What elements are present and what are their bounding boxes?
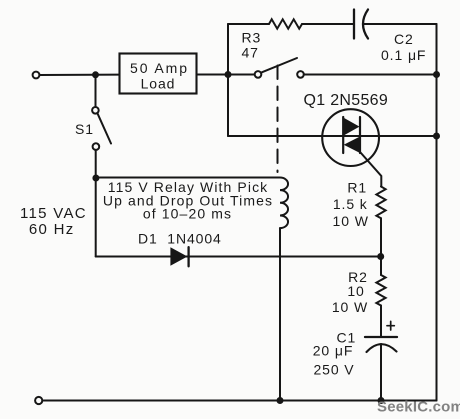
resistor R3 [269, 19, 302, 28]
wire switch row right [304, 74, 437, 76]
S1 contact bottom [93, 143, 100, 150]
node junction R1-R2 [377, 253, 384, 260]
wire node to R2 [380, 257, 382, 276]
plus sign [387, 325, 394, 327]
node junction right rail switch [433, 71, 440, 78]
terminal top-left [33, 72, 40, 79]
svg-text:1.5 k: 1.5 k [333, 196, 368, 212]
node junction top-left [92, 71, 99, 78]
switch contact right [297, 71, 304, 78]
svg-text:115 VAC: 115 VAC [20, 205, 87, 222]
svg-text:47: 47 [242, 45, 259, 61]
svg-text:10 W: 10 W [333, 213, 369, 229]
node junction bottom rail C1 [378, 397, 385, 404]
wire bottom rail [42, 400, 436, 402]
wire R3 to C2 [302, 23, 354, 25]
switch contact left [255, 71, 262, 78]
svg-text:250 V: 250 V [313, 362, 354, 378]
wire top to R3 [228, 23, 269, 25]
mechanical link dashed [277, 66, 279, 173]
wire right rail [436, 24, 438, 401]
node junction at left rail [225, 71, 232, 78]
capacitor C2 [353, 10, 355, 39]
svg-text:10: 10 [347, 283, 364, 299]
resistor R2 [376, 275, 385, 306]
svg-text:Q1 2N5569: Q1 2N5569 [304, 92, 389, 109]
capacitor C1 [365, 336, 397, 338]
svg-text:50 Amp: 50 Amp [130, 60, 189, 76]
svg-text:of 10–20 ms: of 10–20 ms [143, 205, 232, 221]
triac Q1 upper triangle [343, 118, 359, 136]
switch S1 wire [95, 75, 97, 107]
terminal bottom-left [35, 397, 42, 404]
wire S1 down [95, 150, 97, 257]
wire R2 to C1 [380, 306, 382, 338]
wire [197, 74, 229, 76]
svg-text:R3: R3 [242, 30, 262, 46]
50 Amp Load box [120, 54, 197, 94]
node junction relay top [92, 175, 99, 182]
svg-text:10 W: 10 W [332, 299, 368, 315]
svg-text:C2: C2 [394, 31, 414, 47]
svg-text:S1: S1 [75, 121, 94, 137]
svg-text:SeekIC.com: SeekIC.com [377, 398, 460, 415]
S1 blade [97, 113, 111, 143]
resistor R1 [376, 187, 385, 219]
S1 contact top [92, 107, 99, 114]
svg-text:D1 1N4004: D1 1N4004 [138, 230, 222, 246]
wire triac row [228, 135, 437, 137]
wire left rail [227, 24, 229, 136]
wire C2 to right rail [363, 23, 437, 25]
wire [40, 74, 120, 76]
svg-text:60 Hz: 60 Hz [29, 221, 75, 238]
triac Q1 lower triangle [344, 137, 360, 154]
gate wire [361, 153, 382, 187]
wire R1 to node [380, 218, 382, 256]
wire switch row left [228, 74, 255, 76]
switch blade [262, 58, 297, 72]
svg-text:Load: Load [141, 76, 176, 92]
diode D1 [170, 247, 187, 266]
triac Q1 bars [342, 117, 344, 153]
svg-text:R1: R1 [347, 179, 367, 195]
wire D1 row [96, 256, 381, 258]
triac Q1 circle [322, 109, 379, 166]
node junction right rail triac [433, 133, 440, 140]
wire C1 to bottom rail [380, 344, 382, 401]
wire coil to bottom rail [279, 228, 281, 400]
svg-text:0.1 μF: 0.1 μF [381, 47, 426, 63]
wire relay top / coil L1 [96, 178, 288, 229]
node junction bottom rail coil [277, 397, 284, 404]
svg-text:20 μF: 20 μF [313, 343, 354, 359]
